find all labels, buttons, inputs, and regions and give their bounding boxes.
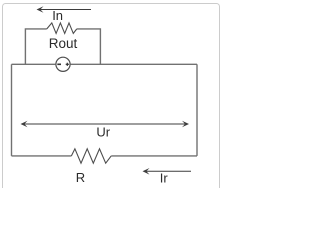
wire: main loop top edge, right of source (70, 63, 197, 65)
arrow Ur (voltage across, double headed) (21, 121, 190, 128)
resistor Rout (zigzag) (47, 23, 77, 34)
wire: main loop bottom edge, left of R (12, 155, 72, 157)
wire: Rout branch right lead + right vertical (77, 29, 101, 64)
wire: main loop top edge, left of source (12, 63, 56, 65)
svg-text:Ir: Ir (160, 171, 169, 186)
wire: main loop left edge (11, 64, 13, 156)
svg-text:R: R (76, 170, 85, 185)
wire: main loop right edge (196, 64, 198, 156)
arrow Ir (current through R, pointing left) (143, 168, 192, 175)
svg-text:Ur: Ur (96, 125, 110, 140)
svg-text:Rout: Rout (49, 36, 78, 51)
polarity plus (66, 63, 69, 66)
polarity minus (57, 63, 61, 65)
svg-text:In: In (52, 8, 63, 23)
arrow In (output current, pointing left) (37, 6, 92, 13)
source U1: circle with polarity (56, 57, 70, 71)
wire: main loop bottom edge, right of R (111, 155, 197, 157)
wire: Rout branch left vertical + top lead (25, 29, 46, 64)
resistor R (zigzag) (71, 149, 111, 163)
